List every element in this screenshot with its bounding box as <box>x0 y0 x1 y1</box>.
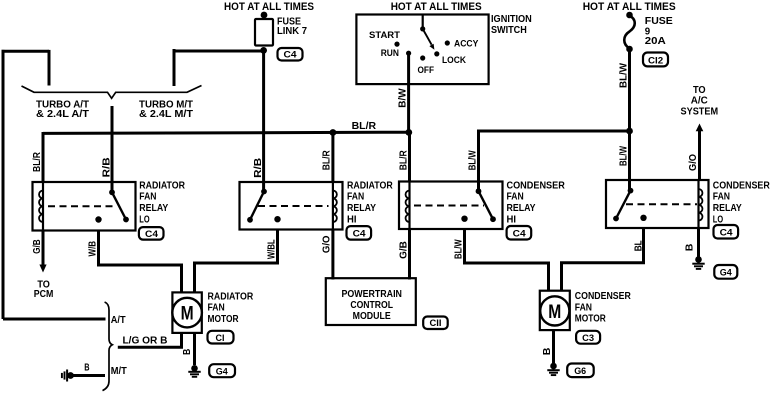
wire B/W from ignition RUN to bus <box>407 53 410 132</box>
wire G/B: condenser relay HI coil to PCM <box>408 229 411 280</box>
svg-text:G4: G4 <box>720 268 733 279</box>
svg-text:M/T: M/T <box>111 366 127 377</box>
coil of relay U2 <box>332 182 334 230</box>
wire: A/T option from left feed <box>3 318 106 321</box>
svg-text:IGNITION: IGNITION <box>491 14 532 25</box>
wire L/G OR B: motor to A/T-M/T options brace <box>118 333 182 347</box>
connector label G6 <box>567 364 594 378</box>
svg-text:W/B: W/B <box>88 241 99 257</box>
connector label CI <box>208 331 234 344</box>
wire B: condenser motor to ground G6 <box>552 330 555 363</box>
dashed link of relay U1 <box>48 205 117 207</box>
svg-text:BL/W: BL/W <box>454 239 465 259</box>
svg-text:C4: C4 <box>720 227 734 238</box>
wire BL/W: condenser relay HI switch to condenser fan motor <box>465 229 549 291</box>
svg-text:CONDENSER: CONDENSER <box>507 180 565 191</box>
wire BL/W: fuse 9 down to condenser fan relay LO switch <box>628 49 631 191</box>
wire G/O: relay HI coil to PCM <box>331 230 334 280</box>
svg-text:C4: C4 <box>353 228 367 239</box>
ignition switch box <box>356 15 488 85</box>
svg-text:HI: HI <box>507 214 517 225</box>
coil of relay U4 <box>697 180 699 228</box>
ignition switch arm with arrow toward LOCK <box>423 29 432 45</box>
svg-text:SWITCH: SWITCH <box>491 25 527 36</box>
svg-text:& 2.4L M/T: & 2.4L M/T <box>139 109 193 120</box>
connector label C4 (fuse link) <box>278 48 303 61</box>
wire W/BL: relay HI switch to radiator fan motor <box>195 230 278 293</box>
svg-text:RELAY: RELAY <box>139 203 168 214</box>
wire R/B: bracket dip down to radiator fan relay LO switch <box>111 106 114 192</box>
svg-text:B: B <box>182 349 193 355</box>
svg-text:L/G OR B: L/G OR B <box>123 335 168 346</box>
wire bus BL/R: main horizontal bus <box>43 132 409 133</box>
svg-text:R/B: R/B <box>253 158 264 178</box>
ground G4 (right) <box>692 256 704 269</box>
svg-text:C4: C4 <box>513 228 527 239</box>
svg-text:RUN: RUN <box>381 48 399 58</box>
svg-text:HOT AT ALL TIMES: HOT AT ALL TIMES <box>224 1 314 13</box>
options brace A/T / M/T <box>103 302 113 391</box>
svg-text:CONDENSER: CONDENSER <box>713 180 770 191</box>
switch of relay U1 <box>109 189 115 195</box>
svg-text:LO: LO <box>713 214 724 225</box>
svg-text:OFF: OFF <box>418 65 435 75</box>
svg-text:ACCY: ACCY <box>454 38 478 48</box>
svg-text:R/B: R/B <box>102 157 113 177</box>
svg-text:RADIATOR: RADIATOR <box>139 180 185 191</box>
svg-text:SYSTEM: SYSTEM <box>681 107 719 118</box>
svg-text:CII: CII <box>430 318 442 329</box>
wire B: motor to ground G4 <box>193 333 196 365</box>
coil of relay U1 <box>42 182 44 231</box>
relay U2: RADIATOR FAN RELAY HI <box>240 182 343 230</box>
wire BL/R: junction down into condenser fan relay HI coil <box>408 132 411 182</box>
svg-text:FAN: FAN <box>208 303 225 314</box>
svg-text:B/W: B/W <box>398 87 409 107</box>
svg-text:RELAY: RELAY <box>713 203 742 214</box>
svg-text:G/O: G/O <box>322 235 333 253</box>
svg-text:HOT AT ALL TIMES: HOT AT ALL TIMES <box>583 1 676 13</box>
relay U3: CONDENSER FAN RELAY HI <box>399 182 503 230</box>
connector label C4 (condenser relay LO) <box>714 225 739 239</box>
svg-text:RELAY: RELAY <box>507 203 536 214</box>
switch of relay U3 <box>476 188 482 194</box>
svg-text:CONDENSER: CONDENSER <box>575 291 631 302</box>
svg-text:BL/W: BL/W <box>468 150 479 171</box>
svg-text:LO: LO <box>139 214 150 225</box>
svg-text:BL: BL <box>634 240 645 251</box>
svg-text:HI: HI <box>347 214 357 225</box>
svg-text:A/C: A/C <box>691 95 708 106</box>
wire: left feed drop to TURBO A/T bracket <box>48 50 51 86</box>
fuse link 7 <box>261 12 268 19</box>
svg-text:G/B: G/B <box>32 239 43 254</box>
svg-text:BL/W: BL/W <box>619 145 630 166</box>
motor M1: RADIATOR FAN MOTOR <box>172 292 202 333</box>
relay U1: RADIATOR FAN RELAY LO <box>33 182 136 231</box>
motor M2: CONDENSER FAN MOTOR <box>540 291 570 330</box>
svg-text:PCM: PCM <box>34 289 54 300</box>
svg-text:RADIATOR: RADIATOR <box>208 292 254 303</box>
ground G6 <box>547 363 559 375</box>
connector label CII <box>423 317 448 330</box>
svg-text:B: B <box>84 362 89 373</box>
svg-text:FAN: FAN <box>139 192 156 203</box>
svg-text:C4: C4 <box>145 229 159 240</box>
svg-text:MOTOR: MOTOR <box>208 314 239 325</box>
svg-text:B: B <box>685 244 696 252</box>
dashed link of relay U3 <box>414 205 484 207</box>
svg-text:BL/R: BL/R <box>399 150 410 170</box>
connector label G4 (radiator fan motor) <box>209 364 235 377</box>
svg-text:LOCK: LOCK <box>442 55 466 65</box>
wire B: condenser relay LO coil to ground G4 <box>697 228 700 257</box>
wire: horizontal from fuse link bottom to TURBO M/T drop <box>173 50 264 53</box>
svg-text:RELAY: RELAY <box>347 203 376 214</box>
svg-text:LINK 7: LINK 7 <box>277 26 307 37</box>
svg-text:CI: CI <box>216 333 225 344</box>
wire: drop to TURBO M/T bracket <box>173 49 176 86</box>
dashed link of relay U2 <box>258 205 329 207</box>
svg-text:C3: C3 <box>582 333 594 344</box>
wire B: M/T option to sideways ground <box>71 374 106 377</box>
svg-text:W/BL: W/BL <box>267 239 278 259</box>
svg-text:G/O: G/O <box>688 154 699 171</box>
connector label CI2 <box>643 53 668 67</box>
node: fuse link bottom junction <box>260 47 267 54</box>
wire G/O: condenser fan relay LO coil up to A/C system (arrow up) <box>698 129 701 180</box>
wire BL: condenser relay LO switch to condenser fan motor <box>562 228 644 291</box>
ground (M/T, sideways) <box>62 370 74 382</box>
svg-text:FAN: FAN <box>713 192 730 203</box>
svg-text:BL/R: BL/R <box>322 150 333 170</box>
switch of relay U4 <box>628 188 634 194</box>
ignition switch pivot stub <box>422 15 424 29</box>
node: bus junction at B/W <box>405 129 412 136</box>
relay U4: CONDENSER FAN RELAY LO <box>606 180 709 228</box>
svg-text:G4: G4 <box>216 366 229 377</box>
fuse 9 20A <box>626 12 633 19</box>
wire G/B: relay LO coil to PCM (arrow down) <box>42 231 45 267</box>
svg-text:G6: G6 <box>574 366 586 377</box>
svg-text:C4: C4 <box>284 50 298 61</box>
ground G4 (radiator fan motor) <box>188 365 200 377</box>
connector label G4 (right) <box>714 265 737 279</box>
svg-text:BL/R: BL/R <box>352 121 377 132</box>
svg-text:BL/R: BL/R <box>32 152 43 172</box>
svg-text:POWERTRAIN: POWERTRAIN <box>341 289 402 300</box>
svg-text:& 2.4L A/T: & 2.4L A/T <box>36 109 89 120</box>
connector label C4 (relay LO) <box>139 227 164 240</box>
switch of relay U2 <box>261 189 267 195</box>
svg-text:FAN: FAN <box>347 192 364 203</box>
wire BL/R: bus down into radiator fan relay LO coil <box>42 132 45 182</box>
svg-text:CI2: CI2 <box>648 55 663 66</box>
dashed link of relay U4 <box>626 203 697 205</box>
connector label C3 <box>576 331 600 344</box>
node: bus junction at relay HI coil <box>330 129 337 136</box>
wire W/B: relay LO switch to radiator fan motor <box>99 231 182 293</box>
wire R/B: fuse link down to radiator fan relay HI switch <box>262 50 265 191</box>
svg-text:START: START <box>369 30 401 40</box>
svg-text:A/T: A/T <box>111 315 126 326</box>
node: BL/W junction <box>626 128 633 135</box>
svg-text:MOTOR: MOTOR <box>575 314 606 325</box>
wire BL/W: junction left and down to condenser fan relay HI switch <box>479 131 630 191</box>
svg-text:B: B <box>542 348 553 356</box>
svg-text:RADIATOR: RADIATOR <box>347 180 393 191</box>
svg-text:G/B: G/B <box>399 241 410 259</box>
options bracket TURBO A/T / TURBO M/T <box>22 86 202 99</box>
svg-text:MODULE: MODULE <box>353 311 392 322</box>
svg-text:FAN: FAN <box>575 302 592 313</box>
svg-text:20A: 20A <box>645 36 666 47</box>
wire: left feed vertical from top-left down to A/T option <box>2 50 5 319</box>
PCM box: POWERTRAIN CONTROL MODULE <box>326 278 416 325</box>
connector label C4 (relay HI) <box>347 226 372 240</box>
wire BL/R: bus down into radiator fan relay HI coil <box>331 132 334 182</box>
svg-text:BL/W: BL/W <box>619 62 630 88</box>
svg-text:M: M <box>548 302 561 323</box>
svg-text:CONTROL: CONTROL <box>350 300 393 311</box>
svg-text:FAN: FAN <box>507 192 524 203</box>
wire: top-left horizontal feed <box>2 50 50 53</box>
svg-text:M: M <box>181 303 194 324</box>
connector label C4 (condenser relay HI) <box>507 226 532 240</box>
svg-text:HOT AT ALL TIMES: HOT AT ALL TIMES <box>391 1 482 13</box>
coil of relay U3 <box>408 182 410 230</box>
